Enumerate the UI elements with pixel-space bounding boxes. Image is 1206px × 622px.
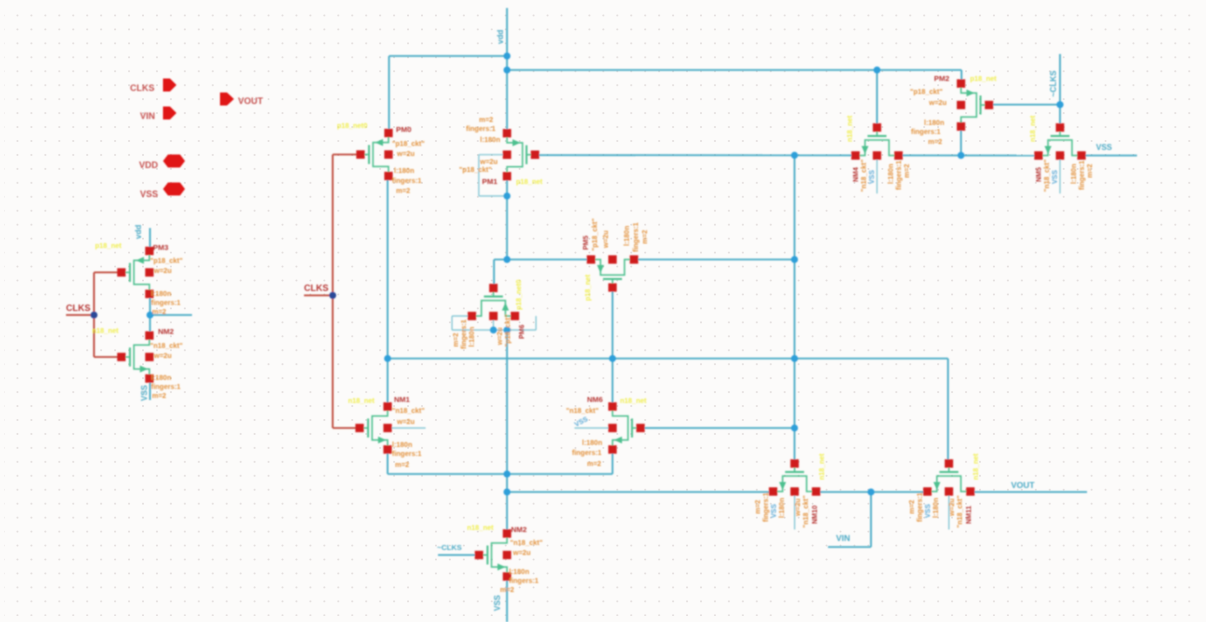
svg-text:p18_net: p18_net <box>970 76 997 83</box>
svg-text:m=2: m=2 <box>395 462 409 469</box>
svg-text:VSS: VSS <box>869 170 876 184</box>
svg-text:"n18_ckt": "n18_ckt" <box>957 495 964 528</box>
svg-text:"p18_ckt": "p18_ckt" <box>910 89 943 96</box>
svg-text:PM0: PM0 <box>396 125 411 134</box>
svg-text:VSS: VSS <box>493 594 502 611</box>
svg-text:fingers:1: fingers:1 <box>509 578 539 585</box>
svg-text:"p18_ckt": "p18_ckt" <box>150 258 183 265</box>
svg-text:"n18_ckt": "n18_ckt" <box>510 540 543 547</box>
svg-text:PM1: PM1 <box>482 177 497 186</box>
svg-text:PM2: PM2 <box>934 74 949 83</box>
svg-text:fingers:1: fingers:1 <box>466 126 496 133</box>
svg-text:"n18_ckt": "n18_ckt" <box>392 408 425 415</box>
svg-text:fingers:1: fingers:1 <box>1079 160 1086 190</box>
svg-text:NM1: NM1 <box>394 395 410 404</box>
svg-text:fingers:1: fingers:1 <box>151 384 181 391</box>
svg-text:VSS: VSS <box>1096 143 1113 152</box>
svg-text:l:180n: l:180n <box>624 226 631 246</box>
svg-text:n18_net: n18_net <box>1030 115 1037 142</box>
svg-text:VSS: VSS <box>925 504 932 518</box>
svg-text:p18_net: p18_net <box>585 274 592 301</box>
svg-text:~CLKS: ~CLKS <box>1049 70 1058 97</box>
svg-text:vdd: vdd <box>134 225 143 239</box>
svg-text:n18_net: n18_net <box>847 115 854 142</box>
svg-text:VSS: VSS <box>140 189 158 199</box>
svg-text:PM5: PM5 <box>583 236 590 251</box>
svg-text:m=2: m=2 <box>479 117 493 124</box>
svg-text:w=2u: w=2u <box>512 550 531 557</box>
svg-text:fingers:1: fingers:1 <box>151 300 181 307</box>
svg-text:m=2: m=2 <box>909 500 916 514</box>
svg-text:NM4: NM4 <box>853 167 860 182</box>
svg-text:NM5: NM5 <box>1036 167 1043 182</box>
svg-text:m=2: m=2 <box>928 139 942 146</box>
svg-text:"n18_ckt": "n18_ckt" <box>150 343 183 350</box>
svg-text:p18_net: p18_net <box>95 243 122 250</box>
svg-text:l:180n: l:180n <box>924 120 944 127</box>
svg-text:p18_net: p18_net <box>516 179 543 186</box>
svg-text:NM2: NM2 <box>511 525 527 534</box>
svg-text:l:180n: l:180n <box>480 137 500 144</box>
svg-text:n18_net: n18_net <box>467 525 494 532</box>
svg-text:VSS: VSS <box>771 504 778 518</box>
svg-text:m=2: m=2 <box>587 461 601 468</box>
svg-text:m=2: m=2 <box>500 587 514 594</box>
svg-text:fingers:1: fingers:1 <box>572 450 602 457</box>
svg-text:VIN: VIN <box>836 533 850 543</box>
svg-text:fingers:1: fingers:1 <box>392 451 422 458</box>
svg-text:l:180n: l:180n <box>469 327 476 347</box>
svg-text:VOUT: VOUT <box>1011 480 1035 490</box>
svg-text:"n18_ckt": "n18_ckt" <box>803 495 810 528</box>
svg-text:"n18_ckt": "n18_ckt" <box>861 159 868 192</box>
svg-text:l:180n: l:180n <box>151 291 171 298</box>
svg-text:VDD: VDD <box>139 160 159 170</box>
svg-text:w=2u: w=2u <box>949 498 956 517</box>
svg-text:NM2: NM2 <box>158 327 174 336</box>
svg-text:l:180n: l:180n <box>582 440 602 447</box>
svg-text:m=2: m=2 <box>453 333 460 347</box>
svg-text:n18_net: n18_net <box>620 398 647 405</box>
svg-text:l:180n: l:180n <box>779 498 786 518</box>
svg-text:CLKS: CLKS <box>304 283 329 293</box>
svg-text:w=2u: w=2u <box>928 100 947 107</box>
svg-text:"p18_ckt": "p18_ckt" <box>392 141 425 148</box>
svg-text:NM10: NM10 <box>812 505 819 524</box>
svg-text:n18_net: n18_net <box>92 328 119 335</box>
svg-text:fingers:1: fingers:1 <box>461 319 468 349</box>
svg-text:l:180n: l:180n <box>888 164 895 184</box>
svg-text:l:180n: l:180n <box>1071 164 1078 184</box>
svg-text:vdd: vdd <box>496 30 505 44</box>
svg-text:VOUT: VOUT <box>238 96 264 106</box>
svg-text:n18_net: n18_net <box>819 453 826 480</box>
svg-text:PM6: PM6 <box>519 325 526 340</box>
svg-text:fingers:1: fingers:1 <box>392 178 422 185</box>
svg-text:fingers:1: fingers:1 <box>763 492 770 522</box>
svg-text:"p18_ckt": "p18_ckt" <box>459 167 492 174</box>
svg-text:w=2u: w=2u <box>153 353 172 360</box>
svg-text:w=2u: w=2u <box>396 419 415 426</box>
svg-text:l:180n: l:180n <box>933 498 940 518</box>
svg-text:NM6: NM6 <box>587 395 603 404</box>
svg-text:PM3: PM3 <box>153 243 168 252</box>
svg-text:VSS: VSS <box>1052 170 1059 184</box>
svg-text:p18_net0: p18_net0 <box>337 123 367 130</box>
svg-text:w=2u: w=2u <box>153 268 172 275</box>
svg-text:CLKS: CLKS <box>130 83 155 93</box>
svg-text:"p18_ckt": "p18_ckt" <box>592 218 599 251</box>
svg-text:"n18_ckt": "n18_ckt" <box>1044 159 1051 192</box>
svg-text:VSS: VSS <box>140 384 149 401</box>
svg-text:w=2u: w=2u <box>497 327 504 346</box>
svg-text:n18_net: n18_net <box>348 398 375 405</box>
svg-text:w=2u: w=2u <box>795 498 802 517</box>
svg-text:~CLKS: ~CLKS <box>437 543 462 552</box>
svg-text:m=2: m=2 <box>152 309 166 316</box>
svg-text:m=2: m=2 <box>642 230 649 244</box>
svg-text:l:180n: l:180n <box>509 569 529 576</box>
svg-text:m=2: m=2 <box>1087 164 1094 178</box>
svg-text:n18_net: n18_net <box>973 453 980 480</box>
svg-text:"p18_ckt": "p18_ckt" <box>505 314 512 347</box>
svg-text:m=2: m=2 <box>904 164 911 178</box>
svg-text:l:180n: l:180n <box>394 168 414 175</box>
svg-text:m=2: m=2 <box>755 500 762 514</box>
svg-text:p18_net0: p18_net0 <box>516 280 523 310</box>
svg-text:fingers:1: fingers:1 <box>896 160 903 190</box>
svg-text:fingers:1: fingers:1 <box>911 129 941 136</box>
svg-text:fingers:1: fingers:1 <box>917 492 924 522</box>
svg-text:l:180n: l:180n <box>392 442 412 449</box>
svg-text:CLKS: CLKS <box>66 303 91 313</box>
svg-text:fingers:1: fingers:1 <box>633 222 640 252</box>
svg-text:m=2: m=2 <box>152 393 166 400</box>
svg-text:w=2u: w=2u <box>603 230 610 249</box>
svg-text:l:180n: l:180n <box>151 375 171 382</box>
svg-text:NM11: NM11 <box>966 506 973 524</box>
svg-text:VIN: VIN <box>140 111 155 121</box>
svg-text:"n18_ckt": "n18_ckt" <box>566 408 599 415</box>
svg-text:w=2u: w=2u <box>396 151 415 158</box>
svg-text:m=2: m=2 <box>396 188 410 195</box>
svg-text:w=2u: w=2u <box>479 159 498 166</box>
